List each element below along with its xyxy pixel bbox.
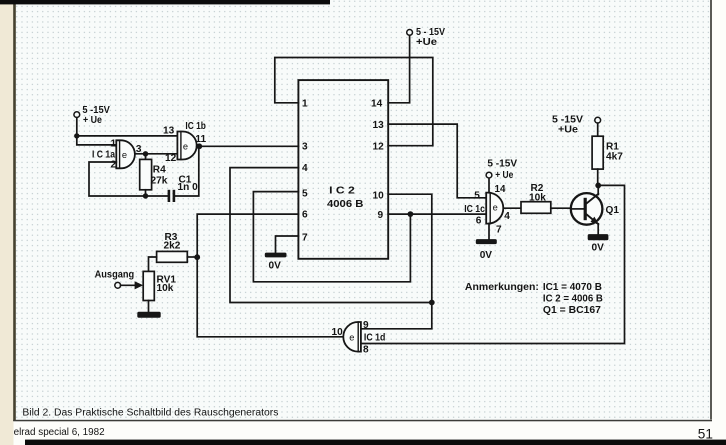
resistor R4 [140,154,152,196]
svg-text:6: 6 [302,210,308,221]
svg-text:e: e [122,150,127,160]
ground Q1 emitter [588,234,609,240]
svg-text:IC1 = 4070 B: IC1 = 4070 B [543,282,602,293]
svg-text:12: 12 [165,153,177,164]
transistor Q1 [571,185,603,234]
bottom scan bar [25,440,726,445]
bottom frame line [13,420,712,422]
wire IC2 pin10 down to IC1d pin9 [361,194,432,329]
Ausgang output terminal [115,281,143,289]
wire IC2 pin1 loop to pin12 (top loop) [275,58,433,146]
IC2 4006B box [298,80,388,259]
svg-text:11: 11 [195,134,206,145]
svg-text:Anmerkungen:: Anmerkungen: [465,282,539,293]
left cream margin [0,0,14,445]
svg-text:7: 7 [302,233,308,244]
wire IC2 pin14 to +Ue terminal [388,35,409,103]
svg-text:2k2: 2k2 [164,241,181,252]
power terminal +Ue (R1 top) [595,117,601,136]
wire IC1a pin2 feedback [89,162,168,196]
power terminal +Ue (left oscillator) [74,112,80,136]
svg-text:5: 5 [302,189,308,200]
node junction R4 bottom [143,193,148,198]
node junction R3 tap [194,254,200,260]
svg-text:6: 6 [476,215,482,226]
svg-text:IC 2 = 4006 B: IC 2 = 4006 B [543,293,603,304]
svg-text:12: 12 [373,142,385,153]
wire IC2 pin9 to IC1c pin6 [388,213,486,215]
svg-text:0V: 0V [480,250,493,261]
svg-text:8: 8 [363,344,369,355]
svg-text:4k7: 4k7 [606,152,623,163]
wire IC2 pin6 down to IC1d output [197,214,343,337]
svg-text:51: 51 [698,426,713,441]
capacitor C1 [168,146,199,202]
wire IC1d pin8 to Q1 collector [361,185,625,343]
svg-text:1n 0: 1n 0 [178,182,199,193]
svg-text:9: 9 [378,210,384,221]
wire IC2 pin7 to ground [276,236,299,253]
wire IC1c output pin4 to R2 [503,207,521,209]
svg-text:10: 10 [373,190,385,201]
svg-text:3: 3 [302,142,308,153]
svg-text:9: 9 [363,320,369,331]
gate e symbols [122,142,498,343]
wire R2 to Q1 base [551,207,571,209]
svg-text:IC 1d: IC 1d [364,333,386,344]
svg-text:I C 2: I C 2 [329,186,355,197]
svg-text:7: 7 [496,225,502,236]
svg-text:+Ue: +Ue [558,125,578,136]
svg-text:e: e [493,203,498,213]
svg-text:10: 10 [332,327,344,338]
wire IC1b output pin11 to IC2 pin3 [197,145,299,147]
ground RV1 [137,312,160,318]
resistor R3 [149,251,198,271]
svg-text:10k: 10k [529,192,546,203]
svg-text:14: 14 [495,184,506,195]
node junction at +Ue left [74,133,79,138]
svg-text:5: 5 [474,191,480,202]
node junction pin11 [196,143,202,149]
svg-text:0V: 0V [269,261,282,272]
node junction collector [595,183,601,189]
svg-text:I C 1a: I C 1a [92,149,115,160]
xor gate IC1d (mirrored) [343,322,361,352]
resistor R2 [521,202,551,214]
svg-text:4: 4 [302,163,308,174]
svg-text:+ Ue: + Ue [83,115,102,126]
node junction pin9 [408,211,414,217]
wire +Ue to IC1b pin13 [77,135,178,137]
svg-text:IC 1b: IC 1b [185,121,206,132]
svg-text:27k: 27k [151,176,168,187]
svg-text:4006 B: 4006 B [327,199,363,210]
svg-text:e: e [183,142,188,152]
svg-text:14: 14 [371,99,383,110]
svg-text:13: 13 [373,120,385,131]
svg-text:5 -15V: 5 -15V [487,159,517,170]
xor gate IC1c [486,193,503,224]
xor gate IC1a [116,140,135,168]
svg-text:10k: 10k [157,283,174,294]
svg-text:R4: R4 [153,164,166,175]
wire IC2 pin13 to IC1c pin5 [388,124,486,198]
resistor R1 [592,136,603,185]
left border line [13,0,16,421]
power terminal +Ue (top) [407,30,413,36]
ground IC2 pin7 [265,253,287,258]
svg-text:Ausgang: Ausgang [95,269,135,280]
wire pin9 loop to pin5 [253,192,410,282]
svg-text:0V: 0V [592,243,605,254]
wire IC1a output pin3 to IC1b pin12 [135,153,178,155]
wire IC2 pin4 loop [230,168,432,303]
svg-text:4: 4 [504,211,510,222]
svg-text:Bild 2. Das Praktische Schaltb: Bild 2. Das Praktische Schaltbild des Ra… [22,408,278,419]
ground IC1c pin7 [476,224,497,245]
svg-text:Q1 = BC167: Q1 = BC167 [543,305,601,316]
svg-text:13: 13 [163,125,175,136]
power terminal +Ue (IC1c pin14) [486,172,492,192]
svg-text:e: e [349,332,354,342]
svg-text:3: 3 [136,144,142,155]
xor gate IC1b [177,132,196,160]
svg-text:+ Ue: + Ue [495,170,513,181]
right border line [710,0,712,420]
top scan bar [0,0,330,4]
svg-text:1: 1 [302,99,308,110]
potentiometer RV1 [143,271,154,311]
svg-text:IC 1c: IC 1c [464,204,485,215]
svg-text:+Ue: +Ue [416,37,437,48]
svg-text:1: 1 [111,138,117,149]
svg-text:Q1: Q1 [606,205,620,216]
wire +Ue down to IC1a pin1 [77,136,117,145]
node junction pin3 / R4 top [143,151,148,156]
svg-text:elrad special 6, 1982: elrad special 6, 1982 [14,427,105,438]
node junction pin10/pin4 loop [429,300,435,306]
svg-text:2: 2 [111,160,117,171]
